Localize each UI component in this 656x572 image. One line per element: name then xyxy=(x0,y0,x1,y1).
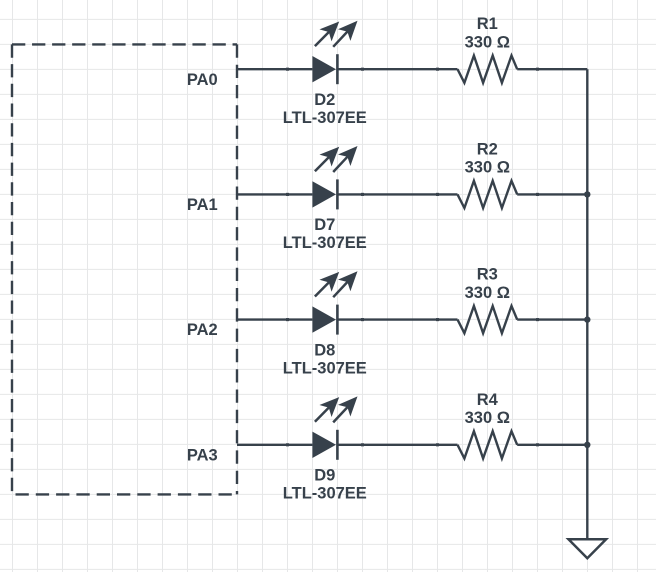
junction node PA1 row xyxy=(584,191,590,197)
wire PA0 to LED D2 anode xyxy=(237,68,312,70)
svg-text:PA1: PA1 xyxy=(187,196,218,214)
wire LED D9 cathode to resistor R4 xyxy=(337,444,457,446)
svg-text:LTL-307EE: LTL-307EE xyxy=(283,359,367,377)
LED D7 xyxy=(312,146,357,209)
svg-text:R1: R1 xyxy=(477,15,498,33)
wire resistor R1 to ground bus xyxy=(517,68,587,70)
LED D9 xyxy=(312,396,357,459)
resistor R2 xyxy=(458,181,518,208)
wire LED D7 cathode to resistor R2 xyxy=(337,193,457,195)
svg-text:D2: D2 xyxy=(314,91,335,109)
svg-text:R2: R2 xyxy=(477,140,498,158)
svg-text:330 Ω: 330 Ω xyxy=(465,159,510,177)
wire resistor R4 to ground bus xyxy=(517,444,587,446)
resistor R4 xyxy=(458,431,518,458)
svg-text:D7: D7 xyxy=(314,216,335,234)
svg-text:R4: R4 xyxy=(477,391,499,409)
svg-text:PA3: PA3 xyxy=(187,446,218,464)
resistor label R3 330 Ohm xyxy=(465,266,510,302)
svg-text:LTL-307EE: LTL-307EE xyxy=(283,234,367,252)
LED label D8 LTL-307EE xyxy=(283,341,367,377)
port block (dashed container) xyxy=(12,44,237,494)
wire PA3 to LED D9 anode xyxy=(237,444,312,446)
svg-text:330 Ω: 330 Ω xyxy=(465,284,510,302)
ground bus wire xyxy=(586,69,588,539)
resistor label R1 330 Ohm xyxy=(465,15,510,51)
resistor R3 xyxy=(458,306,518,333)
LED label D7 LTL-307EE xyxy=(283,216,367,252)
svg-text:R3: R3 xyxy=(477,266,498,284)
LED D2 xyxy=(312,21,357,84)
svg-text:D8: D8 xyxy=(314,341,335,359)
svg-text:330 Ω: 330 Ω xyxy=(465,34,510,52)
wire LED D8 cathode to resistor R3 xyxy=(337,318,457,320)
junction node PA3 row xyxy=(584,442,590,448)
svg-text:LTL-307EE: LTL-307EE xyxy=(283,485,367,503)
ground xyxy=(569,539,607,558)
svg-text:PA2: PA2 xyxy=(187,321,218,339)
svg-text:330 Ω: 330 Ω xyxy=(465,409,510,427)
resistor label R4 330 Ohm xyxy=(465,391,510,427)
LED label D9 LTL-307EE xyxy=(283,467,367,503)
svg-text:LTL-307EE: LTL-307EE xyxy=(283,109,367,127)
svg-text:D9: D9 xyxy=(314,467,335,485)
wire PA2 to LED D8 anode xyxy=(237,318,312,320)
wire resistor R3 to ground bus xyxy=(517,318,587,320)
LED label D2 LTL-307EE xyxy=(283,91,367,127)
junction node PA2 row xyxy=(584,316,590,322)
wire resistor R2 to ground bus xyxy=(517,193,587,195)
LED D8 xyxy=(312,271,357,334)
resistor label R2 330 Ohm xyxy=(465,140,510,176)
wire PA1 to LED D7 anode xyxy=(237,193,312,195)
resistor R1 xyxy=(458,56,518,83)
wire LED D2 cathode to resistor R1 xyxy=(337,68,457,70)
svg-text:PA0: PA0 xyxy=(187,71,218,89)
